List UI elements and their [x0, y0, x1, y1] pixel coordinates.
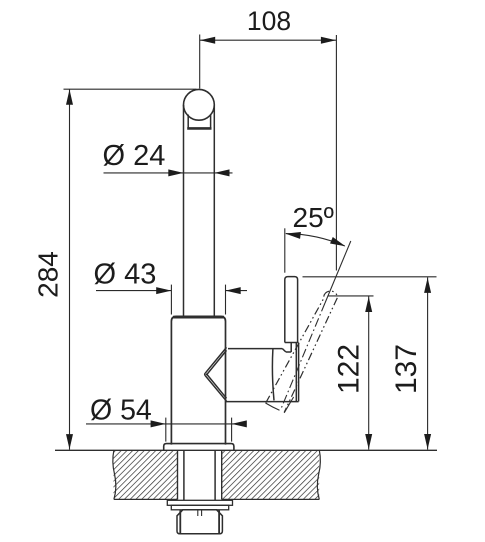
dim o54 arrows: [151, 420, 166, 427]
threaded shank in hole: [184, 451, 215, 501]
svg-text:108: 108: [247, 6, 291, 36]
dim o43 line left: [96, 290, 171, 292]
angle 25 arc arrows: [285, 230, 301, 239]
lever upright: [285, 277, 299, 343]
dim o43 arrows: [156, 287, 171, 294]
dim 108 line: [200, 39, 337, 41]
body cylinder (Ø43): [171, 316, 225, 444]
dim o43 extension right: [225, 285, 227, 315]
countertop top surface line: [55, 449, 437, 451]
dim 122 extension top: [328, 295, 374, 297]
dim 284 line: [69, 89, 71, 449]
dim o54 line: [86, 423, 246, 425]
lock nut: [177, 510, 222, 534]
countertop hatched section right: [222, 450, 321, 499]
dim 284 arrows: [66, 90, 73, 105]
dim o24 arrows: [168, 169, 183, 176]
svg-text:Ø 54: Ø 54: [90, 395, 152, 427]
dim o24 arrow tail right: [214, 172, 232, 174]
dim 137 line: [427, 277, 429, 449]
dim 137 arrows: [424, 278, 431, 293]
countertop hatched section left: [113, 450, 178, 499]
washer 2: [171, 505, 228, 510]
dim o24 line: [104, 172, 215, 174]
washer 1: [167, 500, 232, 505]
dim 122 arrows: [365, 297, 372, 312]
dim 108 extension right: [335, 35, 337, 271]
svg-text:25º: 25º: [293, 202, 334, 233]
dim o54 extension right: [231, 418, 233, 442]
lever axis line (solid upper part): [325, 241, 351, 303]
phantom lever bottom cap line: [266, 403, 280, 410]
dim 122 line: [368, 297, 370, 450]
dim 137 extension top: [303, 276, 437, 278]
valve housing (right side): [226, 343, 299, 402]
lever phantom tilted 25 deg: [266, 291, 338, 412]
dim o54 extension left: [165, 418, 167, 442]
dim 108 arrows: [200, 37, 215, 44]
dim 284 extension top: [64, 88, 197, 90]
aerator bracket under circle: [187, 115, 211, 129]
svg-text:137: 137: [390, 344, 423, 394]
phantom lever right edge lower end: [284, 397, 293, 413]
svg-text:284: 284: [33, 251, 64, 298]
lever axis line (dash-dot lower part): [281, 303, 326, 410]
svg-text:Ø 43: Ø 43: [94, 258, 157, 290]
dim 108 extension left: [199, 35, 201, 89]
dim o43 arrow tail right: [226, 290, 248, 292]
svg-text:122: 122: [333, 344, 366, 394]
cone detail on body: [205, 347, 227, 401]
angle 25 arc: [286, 234, 345, 246]
spout pipe: [184, 105, 215, 316]
svg-text:Ø 24: Ø 24: [103, 140, 166, 172]
dim o43 extension left: [170, 285, 172, 315]
angle 25 reference line (lever edge extended): [284, 228, 286, 272]
spout head circle: [184, 89, 215, 120]
base flange (Ø54): [164, 444, 234, 451]
